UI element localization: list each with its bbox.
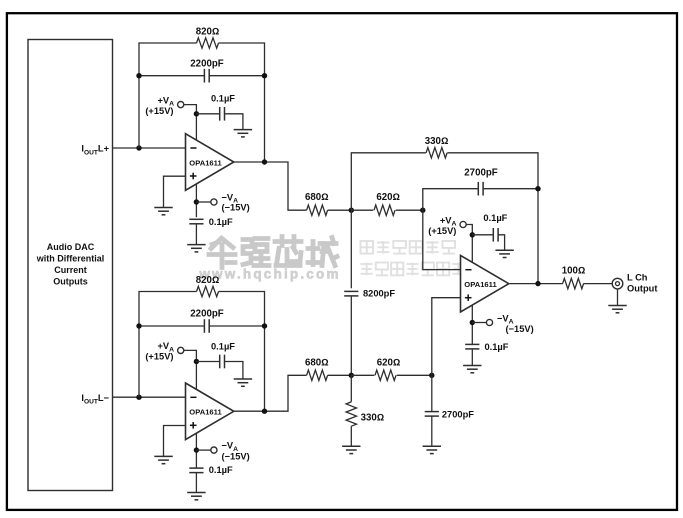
wire: to -VA terminal (U1) — [196, 201, 211, 203]
ground: U1 V- bypass — [187, 245, 205, 252]
junction: 2200pF left — [136, 73, 141, 78]
ground: U2 non-inverting input — [154, 456, 172, 463]
wire: node B down to U3 inverting input — [423, 210, 461, 269]
svg-text:820Ω: 820Ω — [196, 275, 220, 286]
capacitor 0.1uF (U3 V- bypass) — [465, 344, 479, 349]
svg-text:2700pF: 2700pF — [464, 167, 497, 178]
wire: IoutL- from DAC to U2 inverting input — [113, 396, 186, 398]
svg-text:820Ω: 820Ω — [196, 27, 220, 38]
svg-text:2700pF: 2700pF — [442, 410, 474, 420]
wire: node B2 down to 2700pF — [431, 375, 433, 411]
resistor 330ohm (to ground) — [346, 402, 356, 426]
resistor 680ohm (upper) — [307, 205, 328, 215]
junction: 2700pF at U3 output vertical — [535, 186, 540, 191]
ground: 330ohm — [342, 446, 360, 453]
node: U1 output — [262, 159, 267, 164]
wire: 2700pF to ground — [431, 416, 433, 446]
node: U2 input / feedback tap — [136, 395, 141, 400]
wire: bypass cap to ground (U1 top) — [225, 114, 243, 130]
svg-text:100Ω: 100Ω — [562, 266, 586, 277]
wire: node A down to 8200pF — [350, 210, 352, 288]
resistor 330ohm (U3 feedback) — [426, 148, 447, 158]
resistor 820ohm (U1 feedback) — [197, 38, 219, 48]
svg-text:Outputs: Outputs — [53, 276, 88, 286]
svg-text:8200pF: 8200pF — [363, 289, 395, 299]
ground: U3 V- bypass — [463, 366, 481, 373]
wire: bypass cap to ground (U3 top) — [498, 235, 504, 250]
resistor 620ohm (lower) — [375, 370, 396, 380]
svg-text:0.1µF: 0.1µF — [209, 217, 233, 227]
svg-text:2200pF: 2200pF — [190, 58, 223, 69]
ground: U2 V+ bypass — [234, 379, 252, 386]
junction: U1 V+ bypass tap — [194, 111, 199, 116]
wire: 2200pF row left — [139, 75, 204, 77]
wire: +VA to U1 V+ pin — [184, 105, 197, 141]
svg-text:(−15V): (−15V) — [506, 324, 534, 334]
capacitor 0.1uF (U2 V+ bypass) — [220, 355, 225, 369]
wire: U2 output to 680ohm (lower) — [234, 375, 307, 411]
svg-text:www.hqchip.com: www.hqchip.com — [198, 266, 340, 281]
svg-text:0.1µF: 0.1µF — [209, 465, 233, 475]
svg-text:330Ω: 330Ω — [425, 136, 449, 147]
wire: bypass cap to ground (U1 bottom) — [195, 224, 197, 245]
wire: node B up to 2700pF — [423, 189, 478, 211]
wire: 2200pF row left (lower) — [139, 325, 204, 327]
wire: U1 output to 680ohm — [234, 162, 307, 210]
wire: to 0.1uF bypass (U1 top) — [196, 113, 219, 115]
capacitor 0.1uF (U1 V+ bypass) — [220, 107, 225, 121]
wire: node A2 to 620ohm (lower) — [351, 374, 374, 376]
junction: 2200pF left (lower) — [136, 323, 141, 328]
wire: node A up to 330ohm feedback — [351, 153, 426, 210]
wire: U3 V- pin down — [471, 305, 473, 344]
wire: 820ohm to U1 output vertical — [219, 43, 265, 162]
wire: +VA to U2 V+ pin — [184, 350, 197, 389]
svg-text:330Ω: 330Ω — [361, 413, 385, 424]
svg-text:L Ch: L Ch — [627, 272, 648, 282]
wire: node A to 620ohm (upper) — [351, 209, 373, 211]
wire: feedback up-left to 820ohm — [139, 43, 197, 148]
svg-text:(−15V): (−15V) — [222, 452, 250, 462]
wire: 330ohm to U3 output vertical — [447, 153, 538, 284]
svg-text:680Ω: 680Ω — [305, 192, 329, 203]
wire: U1 V- pin down — [195, 184, 197, 217]
wire: +VA to U3 V+ pin — [466, 225, 472, 263]
svg-text:OPA1611: OPA1611 — [189, 408, 222, 417]
node B2: U3 non-inverting node — [429, 373, 434, 378]
capacitor 2700pF (U3 feedback) — [478, 182, 483, 196]
wire: 2200pF row right (lower) — [209, 325, 264, 327]
wire: 330ohm to ground — [350, 426, 352, 446]
ground: 2700pF — [423, 446, 441, 453]
svg-text:(−15V): (−15V) — [222, 203, 250, 213]
watermark: big gray CJK characters (hand-drawn strokes) — [209, 237, 337, 268]
op-amp U3 OPA1611 (difference amp) — [461, 255, 509, 312]
wire: U3 output to 100ohm — [510, 283, 563, 285]
resistor 820ohm (U2 feedback) — [197, 286, 219, 296]
junction: U3 V- bypass tap — [470, 320, 475, 325]
wire: 100ohm to output jack — [583, 283, 612, 285]
capacitor 0.1uF (U1 V- bypass) — [189, 219, 203, 224]
terminal -VA (U1) — [211, 199, 217, 205]
junction: 2200pF right — [262, 73, 267, 78]
wire: jack sleeve to ground — [617, 289, 619, 305]
capacitor 0.1uF (U3 V+ bypass) — [493, 228, 498, 242]
capacitor 0.1uF (U2 V- bypass) — [189, 468, 203, 473]
svg-text:OPA1611: OPA1611 — [464, 280, 497, 289]
watermark: light gray CJK line 1 (hand-drawn strokes) — [361, 241, 456, 254]
svg-text:Current: Current — [54, 265, 87, 275]
terminal +VA (U2) — [178, 347, 184, 353]
wire: 620ohm to node B — [396, 209, 423, 211]
wire: U2 V- pin down — [195, 433, 197, 468]
node A2: lower sum node — [349, 373, 354, 378]
svg-text:(+15V): (+15V) — [145, 106, 173, 116]
svg-text:620Ω: 620Ω — [377, 357, 401, 368]
node B: U3 inverting node — [420, 208, 425, 213]
wire: bypass cap to ground (U2 top) — [225, 362, 243, 379]
terminal -VA (U3) — [486, 319, 492, 325]
ground: U1 V+ bypass — [234, 130, 252, 137]
op-amp U1 OPA1611 (upper I/V) — [186, 134, 234, 191]
ground: U2 V- bypass — [187, 493, 205, 500]
wire: node B2 up to U3 non-inverting input — [432, 298, 461, 376]
capacitor 2200pF (U1 feedback) — [204, 69, 209, 83]
wire: 2700pF to right vertical — [483, 188, 538, 190]
resistor 680ohm (lower) — [307, 370, 328, 380]
wire: 620ohm to node B2 — [397, 374, 432, 376]
node: U2 output — [262, 409, 267, 414]
wire: node A2 down to 330ohm — [350, 375, 352, 402]
junction: U2 V+ bypass tap — [194, 359, 199, 364]
svg-text:0.1µF: 0.1µF — [485, 342, 509, 352]
svg-text:0.1µF: 0.1µF — [211, 94, 235, 104]
junction: U1 V- bypass tap — [194, 199, 199, 204]
svg-text:2200pF: 2200pF — [190, 309, 223, 320]
wire: U1 non-inverting input to ground — [164, 176, 186, 207]
output jack L Ch — [612, 278, 623, 289]
node: U1 input / feedback tap — [136, 145, 141, 150]
node: U3 output / feedback tap — [535, 281, 540, 286]
junction: U2 V- bypass tap — [194, 447, 199, 452]
junction: U3 V+ bypass tap — [470, 232, 475, 237]
ground: output jack — [608, 306, 626, 313]
svg-text:Audio DAC: Audio DAC — [47, 242, 95, 252]
junction: 2200pF right (lower) — [262, 323, 267, 328]
wire: to -VA terminal (U2) — [196, 449, 211, 451]
Audio DAC block — [28, 40, 113, 491]
ground: U3 V+ bypass — [495, 250, 513, 257]
wire: 680ohm to node A2 — [328, 374, 352, 376]
ground: U1 non-inverting input — [154, 208, 172, 215]
wire: IoutL+ from DAC to U1 inverting input — [113, 147, 186, 149]
watermark: light gray CJK line 2 (hand-drawn strokes) — [361, 263, 465, 276]
capacitor 2200pF (U2 feedback) — [204, 319, 209, 333]
wire: feedback up-left to 820ohm (lower) — [139, 292, 197, 398]
svg-text:Output: Output — [627, 284, 657, 294]
wire: 820ohm to U2 output vertical — [219, 292, 265, 412]
capacitor 8200pF (between sum nodes) — [344, 291, 358, 296]
svg-text:0.1µF: 0.1µF — [211, 341, 235, 351]
svg-text:(+15V): (+15V) — [145, 352, 173, 362]
terminal -VA (U2) — [211, 447, 217, 453]
svg-text:680Ω: 680Ω — [305, 357, 329, 368]
terminal +VA (U1) — [178, 102, 184, 108]
wire: bypass cap to ground (U2 bottom) — [195, 473, 197, 493]
terminal +VA (U3) — [460, 221, 466, 227]
wire: 2200pF row right — [209, 75, 264, 77]
resistor 620ohm (upper) — [374, 205, 395, 215]
svg-text:0.1µF: 0.1µF — [483, 213, 507, 223]
svg-text:(+15V): (+15V) — [428, 226, 456, 236]
wire: to 0.1uF bypass (U2 top) — [196, 361, 219, 363]
svg-text:620Ω: 620Ω — [376, 192, 400, 203]
resistor 100ohm (output) — [563, 278, 584, 288]
wire: 680ohm to node A — [328, 209, 352, 211]
wire: 8200pF to node A2 — [350, 296, 352, 375]
svg-text:with Differential: with Differential — [36, 254, 105, 264]
wire: U2 non-inverting input to ground — [164, 426, 186, 457]
wire: to 0.1uF bypass (U3 top) — [472, 234, 493, 236]
wire: to -VA terminal (U3) — [472, 322, 486, 324]
capacitor 2700pF (to ground) — [425, 412, 439, 417]
node A: upper sum node — [349, 208, 354, 213]
wire: bypass cap to ground (U3 bottom) — [471, 349, 473, 365]
svg-text:OPA1611: OPA1611 — [189, 158, 222, 167]
op-amp U2 OPA1611 (lower I/V) — [186, 383, 234, 440]
